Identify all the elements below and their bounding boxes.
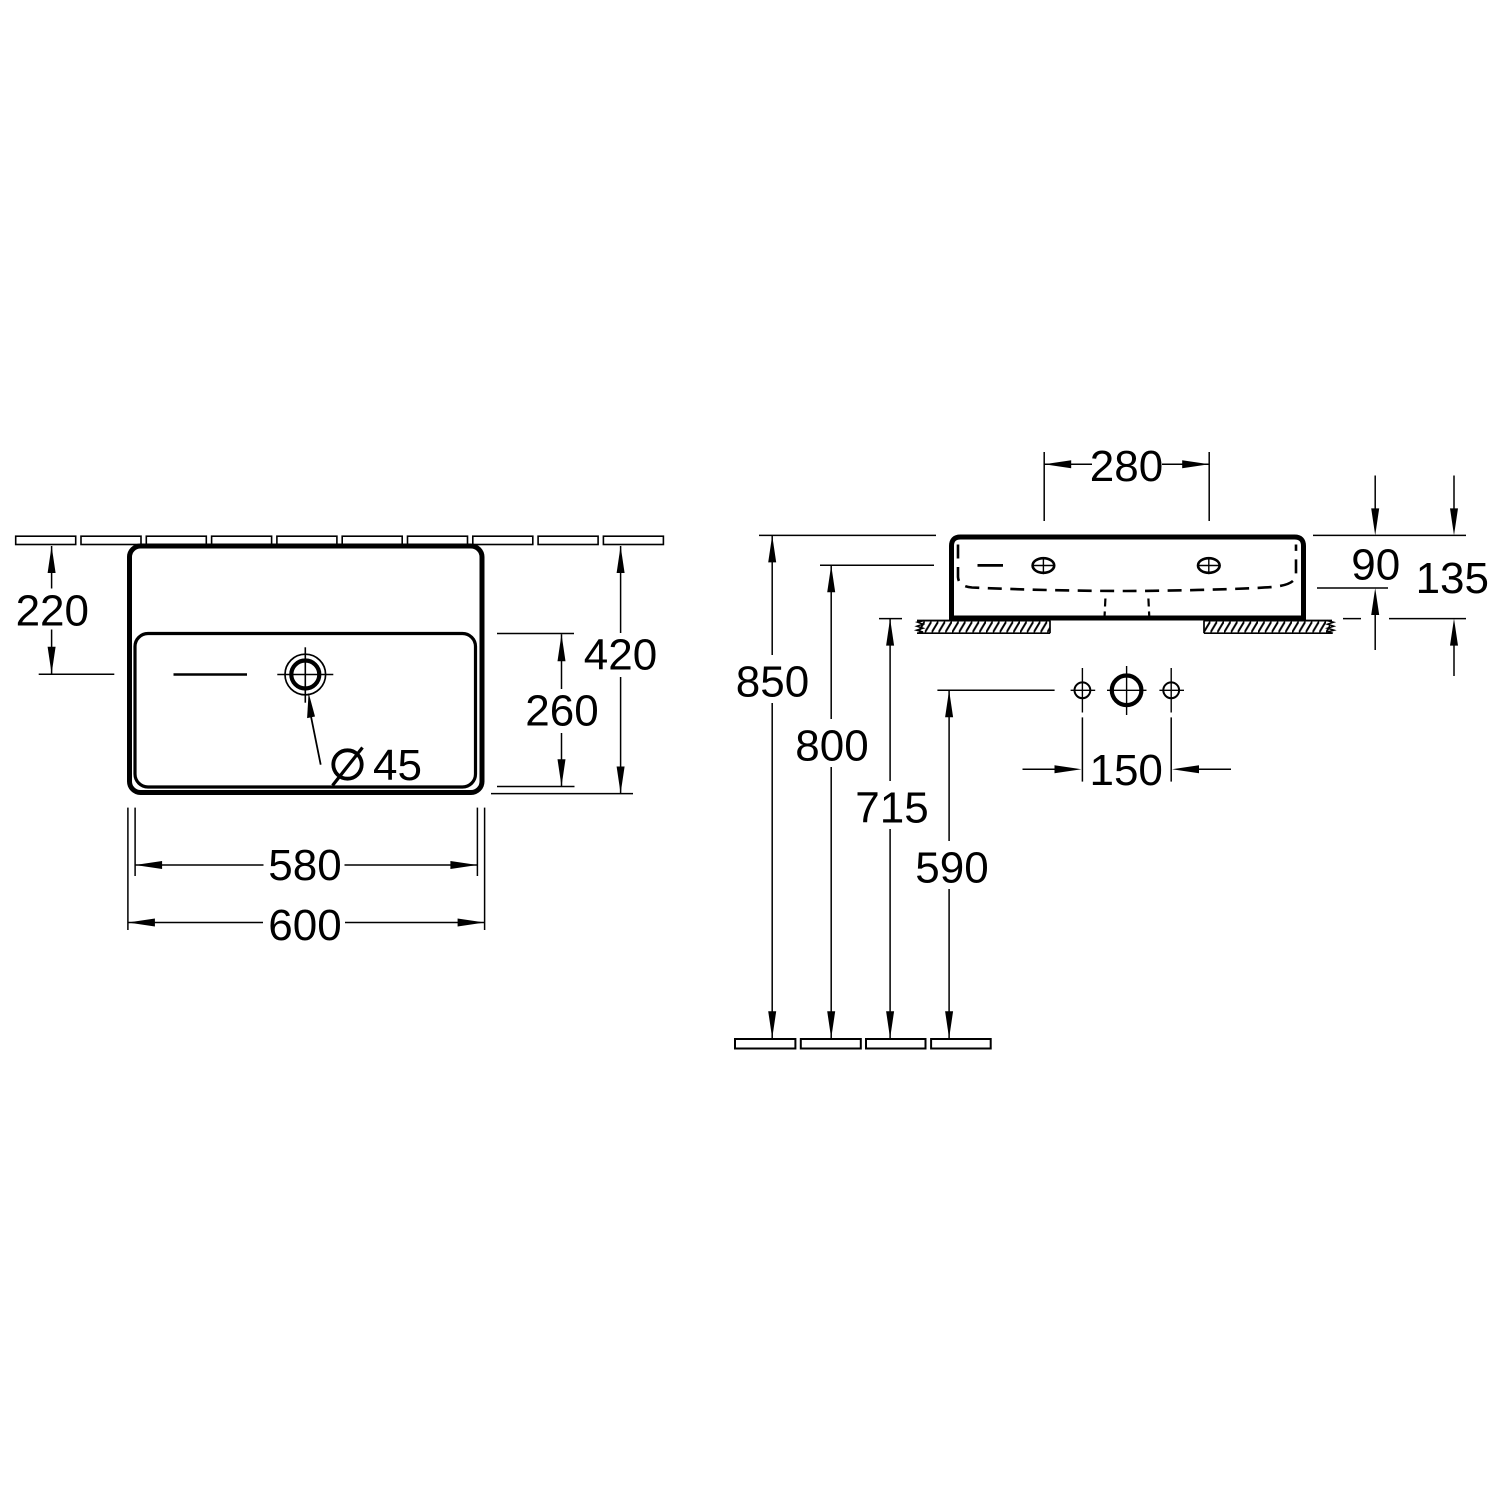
fitting large circle [1112,676,1142,706]
dim 220 lower arrow [48,647,56,674]
dim 715 top arrow [886,619,894,646]
dim 280 ext line right [1208,452,1210,521]
dim 280 line right [1162,463,1209,465]
leader arrowhead [307,693,315,718]
ext line 600 right [484,808,486,930]
dim 135 bottom arrow tail [1453,645,1455,676]
dim 850 line upper [771,535,773,655]
dim 90 top arrow tail [1374,476,1376,510]
fitting small circle left crosshair v [1081,668,1083,713]
dim 590 bottom arrow [945,1011,953,1038]
floor tile 2 [801,1039,861,1049]
hidden bowl outline (dashed) [958,545,1296,592]
hatch right zigzag end [1327,621,1334,634]
dim 280 right arrow [1182,460,1209,468]
hatch right top line [1204,620,1332,622]
wall tile 9 [538,536,598,544]
dim 260 line upper [561,634,563,689]
svg-text:580: 580 [268,841,341,890]
dim 850 top extension line [759,534,936,536]
hatch left right cap [1049,621,1051,634]
dim 600 line left [128,922,263,924]
wall tile 5 [277,536,337,544]
faucet position line (plan) [174,673,248,676]
svg-text:800: 800 [795,722,868,771]
hatch right bottom line [1204,632,1332,634]
wall tile 8 [473,536,533,544]
dim 260 top extension line [497,633,574,635]
ext line 580 left [134,808,136,876]
dim 580 line left [135,864,263,866]
faucet hole left crosshair v [1042,557,1044,574]
label diameter symbol circle [333,750,361,778]
hatch left zigzag end [917,621,925,634]
svg-text:220: 220 [16,586,89,635]
svg-text:715: 715 [855,784,928,833]
drain crosshair horizontal [277,674,333,676]
dim 220 line upper [51,546,53,589]
faucet hole left ellipse [1033,558,1055,573]
hidden drain right (dashed) [1147,599,1150,618]
dim 280 line left [1044,463,1092,465]
dim 850 line lower [771,703,773,1038]
dim 220 upper arrow [48,546,56,573]
faucet hole right crosshair v [1208,557,1210,574]
fitting large circle crosshair v [1126,666,1128,715]
dim 90 bottom extension line [1317,587,1388,589]
dim 420 upper arrow [617,546,625,573]
wall tile 3 [146,536,206,544]
dim 150 left tail [1023,768,1057,770]
svg-text:260: 260 [525,687,598,736]
dim 420 bottom extension line [491,793,633,795]
dim 715 line upper [889,619,891,781]
dim 220 extension line [39,673,115,675]
dim 90 bottom arrowhead [1371,588,1379,615]
dim 420 line upper [620,546,622,633]
dim 150 right tail [1198,768,1231,770]
svg-text:45: 45 [373,741,422,790]
svg-text:280: 280 [1090,442,1163,491]
dim 135 bottom extension line [1389,618,1466,620]
dim 580 right arrow [450,861,477,869]
dim 420 lower arrow [617,767,625,794]
fitting small circle left [1075,682,1091,698]
dim 715 line lower [889,829,891,1038]
fitting large circle crosshair h [1107,689,1147,691]
svg-text:850: 850 [736,658,809,707]
hidden drain left (dashed) [1103,599,1106,618]
basin bowl inner rim (plan) [135,634,476,788]
svg-text:135: 135 [1416,554,1489,603]
hatch right left cap [1203,621,1205,634]
label diameter symbol slash [333,748,363,786]
floor tile 3 [866,1039,926,1049]
dim 600 line right [345,922,485,924]
dim 580 left arrow [135,861,162,869]
floor tile 1 [735,1039,795,1049]
dim 590 line upper [948,690,950,841]
dim 220 line lower [51,630,53,674]
dim 150 ext line left [1081,717,1083,781]
basin outer rim (plan) [130,546,483,793]
faucet hole left crosshair h [1032,565,1056,567]
dim 280 left arrow [1044,460,1071,468]
dim 280 ext line left [1043,452,1045,521]
dim 800 line lower [830,767,832,1038]
drain hole outer circle [285,654,326,695]
dim 715 top extension line [879,618,902,620]
svg-text:600: 600 [268,901,341,950]
dim 260 upper arrow [558,634,566,661]
floor tile 4 [931,1039,991,1049]
dim 850 bottom arrow [768,1011,776,1038]
wall tile 2 [81,536,141,544]
wall tile 10 [603,536,663,544]
dim 590 line lower [948,889,950,1038]
drain hole inner circle [291,661,319,689]
ext line 580 right [476,808,478,876]
wall hatch block left [919,621,1050,634]
hatch left bottom line [917,632,1050,634]
dim 135 top arrowhead [1450,508,1458,535]
dim 590 top extension line [937,689,1054,691]
wall hatch block right [1204,621,1330,634]
leader line for diameter label [311,714,321,765]
dim 800 line upper [830,565,832,719]
faucet hole right ellipse [1198,558,1220,573]
wall tile 6 [342,536,402,544]
fitting small circle left crosshair h [1071,689,1096,691]
dim 90 top arrowhead [1371,508,1379,535]
fitting small circle right crosshair v [1170,668,1172,713]
svg-text:90: 90 [1351,541,1400,590]
svg-text:150: 150 [1089,746,1162,795]
dim 150 left arrow [1055,765,1082,773]
hatch left top line [917,620,1050,622]
dim 260 bottom extension line [497,786,575,788]
dim 150 ext line right [1170,717,1172,781]
dim 600 right arrow [458,919,485,927]
ext line 600 left [127,808,129,930]
svg-text:420: 420 [584,631,657,680]
dim 580 line right [345,864,478,866]
dim 420 line lower [620,677,622,794]
svg-text:590: 590 [915,844,988,893]
fitting small circle right crosshair h [1159,689,1184,691]
basin body (front) [952,537,1304,618]
dim 850 top arrow [768,535,776,562]
wall tile 1 [16,536,76,544]
faucet hole right crosshair h [1197,565,1221,567]
dim 600 left arrow [128,919,155,927]
overflow slot line (front) [978,564,1004,567]
dim 135 bottom arrowhead [1450,619,1458,646]
dim 150 right arrow [1172,765,1199,773]
dim 90 bottom arrow tail [1374,614,1376,650]
dim 715 bottom arrow [886,1011,894,1038]
basin top extension line right [1313,534,1466,536]
wall tile 7 [408,536,468,544]
dim 135 top arrow tail [1453,476,1455,510]
dim 800 top arrow [827,565,835,592]
dim 260 line lower [561,733,563,786]
floor line dash [1343,618,1361,620]
drain crosshair vertical [304,647,306,702]
fitting small circle right [1163,682,1179,698]
dim 800 top extension line [820,564,934,566]
dim 260 lower arrow [558,759,566,786]
wall tile 4 [212,536,272,544]
dim 590 top arrow [945,690,953,717]
dim 800 bottom arrow [827,1011,835,1038]
